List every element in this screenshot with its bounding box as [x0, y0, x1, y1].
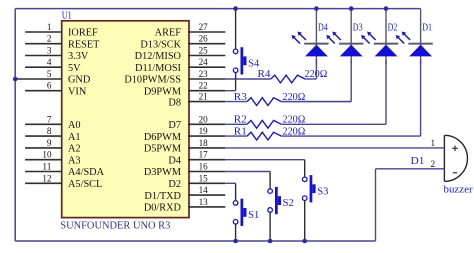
svg-text:11: 11 — [42, 162, 51, 173]
svg-text:16: 16 — [199, 162, 208, 173]
svg-text:D2: D2 — [388, 22, 398, 33]
svg-text:D11/MOSI: D11/MOSI — [135, 63, 182, 74]
svg-text:D6PWM: D6PWM — [144, 132, 181, 143]
svg-text:D3: D3 — [353, 22, 363, 33]
svg-text:S2: S2 — [283, 198, 294, 209]
svg-text:15: 15 — [199, 173, 208, 184]
svg-text:AREF: AREF — [155, 28, 182, 39]
svg-text:22: 22 — [199, 81, 208, 92]
svg-text:20: 20 — [199, 114, 208, 125]
svg-text:25: 25 — [199, 46, 208, 57]
svg-text:1: 1 — [47, 22, 52, 33]
svg-text:R2: R2 — [234, 115, 247, 126]
svg-text:220Ω: 220Ω — [283, 126, 306, 137]
svg-text:17: 17 — [199, 150, 208, 161]
svg-text:3: 3 — [47, 46, 52, 57]
svg-text:24: 24 — [199, 57, 208, 68]
svg-text:D1/TXD: D1/TXD — [144, 191, 181, 202]
svg-text:S4: S4 — [248, 58, 259, 69]
svg-text:27: 27 — [199, 22, 208, 33]
svg-text:D2: D2 — [168, 179, 181, 190]
svg-text:A3: A3 — [68, 155, 81, 166]
svg-text:D12/MISO: D12/MISO — [135, 51, 182, 62]
svg-text:S1: S1 — [248, 210, 259, 221]
svg-text:D10PWM/SS: D10PWM/SS — [124, 75, 181, 86]
svg-text:18: 18 — [199, 138, 208, 149]
svg-text:A4/SDA: A4/SDA — [68, 167, 105, 178]
svg-text:4: 4 — [47, 57, 52, 68]
svg-text:D4: D4 — [318, 22, 328, 33]
svg-text:3.3V: 3.3V — [68, 51, 89, 62]
svg-text:D5PWM: D5PWM — [144, 144, 181, 155]
svg-text:R3: R3 — [234, 92, 247, 103]
svg-text:D13/SCK: D13/SCK — [140, 39, 181, 50]
svg-text:5: 5 — [47, 69, 52, 80]
svg-text:220Ω: 220Ω — [283, 115, 306, 126]
svg-text:1: 1 — [431, 138, 436, 149]
svg-text:D1: D1 — [411, 156, 425, 167]
svg-text:8: 8 — [47, 126, 52, 137]
svg-text:R1: R1 — [234, 126, 247, 137]
svg-text:6: 6 — [47, 81, 52, 92]
svg-text:2: 2 — [47, 34, 52, 45]
svg-text:IOREF: IOREF — [68, 28, 98, 39]
svg-text:19: 19 — [199, 126, 208, 137]
svg-text:2: 2 — [431, 159, 436, 170]
svg-text:D3PWM: D3PWM — [144, 167, 181, 178]
svg-text:R4: R4 — [258, 69, 271, 80]
svg-text:9: 9 — [47, 138, 52, 149]
svg-text:13: 13 — [199, 197, 208, 208]
svg-text:A2: A2 — [68, 144, 81, 155]
svg-text:D9PWM: D9PWM — [144, 86, 181, 97]
svg-text:D0/RXD: D0/RXD — [144, 203, 182, 214]
svg-text:RESET: RESET — [68, 39, 100, 50]
svg-text:21: 21 — [199, 92, 208, 103]
svg-text:buzzer: buzzer — [444, 184, 474, 195]
svg-text:14: 14 — [199, 185, 208, 196]
svg-text:A1: A1 — [68, 132, 81, 143]
svg-text:GND: GND — [68, 75, 91, 86]
svg-text:12: 12 — [42, 173, 51, 184]
svg-text:U1: U1 — [62, 11, 72, 22]
svg-text:23: 23 — [199, 69, 208, 80]
svg-text:D8: D8 — [168, 97, 181, 108]
svg-text:VIN: VIN — [68, 86, 87, 97]
svg-text:A0: A0 — [68, 120, 81, 131]
svg-text:D1: D1 — [422, 22, 432, 33]
svg-text:10: 10 — [42, 150, 51, 161]
svg-text:S3: S3 — [317, 186, 328, 197]
svg-text:D7: D7 — [168, 120, 181, 131]
svg-text:26: 26 — [199, 34, 208, 45]
svg-text:D4: D4 — [168, 155, 181, 166]
svg-text:SUNFOUNDER UNO R3: SUNFOUNDER UNO R3 — [60, 220, 170, 231]
svg-text:A5/SCL: A5/SCL — [68, 179, 102, 190]
svg-text:7: 7 — [47, 114, 52, 125]
svg-text:5V: 5V — [68, 63, 81, 74]
